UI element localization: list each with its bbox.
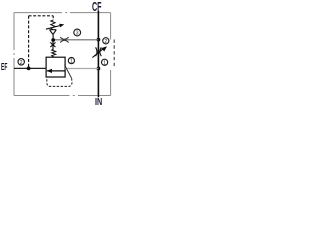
svg-text:3: 3	[76, 31, 79, 37]
svg-text:2: 2	[104, 39, 107, 45]
svg-text:1: 1	[70, 59, 73, 65]
svg-text:2: 2	[20, 60, 23, 66]
svg-text:1: 1	[103, 60, 106, 66]
